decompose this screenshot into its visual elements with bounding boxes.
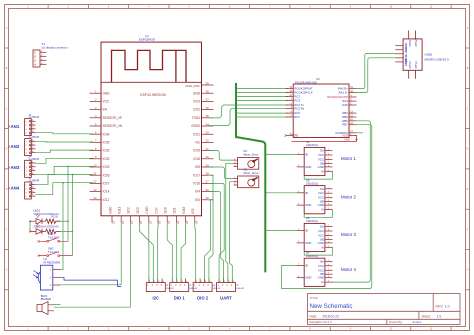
module U1 body ESP32 outline bbox=[101, 42, 202, 216]
U3 pin 18 RC1/ICSPCLK bbox=[286, 92, 294, 94]
IC U5 body bbox=[304, 186, 325, 214]
wire LED1/SW1 bus to IO25 junction bbox=[67, 166, 69, 241]
connector J8 pins bbox=[196, 279, 209, 283]
U3 pin 9 RC7 bbox=[286, 116, 294, 118]
U7 pin 2 VCC bbox=[325, 269, 333, 271]
svg-text:GND: GND bbox=[305, 241, 311, 245]
motor M1 body bbox=[238, 158, 259, 170]
U1 pin 9 IO33 bbox=[90, 158, 102, 160]
U6 pin 6 GND bbox=[325, 242, 333, 244]
svg-text:D+: D+ bbox=[404, 53, 408, 57]
U6 pin 1 OA bbox=[325, 226, 333, 228]
svg-text:IO0: IO0 bbox=[195, 198, 200, 202]
U1 pin 26 IO4 bbox=[202, 191, 214, 193]
svg-text:CLK: CLK bbox=[154, 207, 158, 214]
U6 pin 5 IA bbox=[325, 246, 333, 248]
svg-text:32: 32 bbox=[206, 139, 210, 143]
title block frame bbox=[308, 294, 461, 325]
IC U7 body bbox=[304, 258, 325, 286]
U1 pin 3 EN bbox=[90, 109, 102, 111]
wire bus to PIC RC3 bbox=[236, 98, 288, 100]
connector P1 pins bbox=[40, 52, 47, 64]
svg-text:GND: GND bbox=[103, 91, 111, 95]
svg-text:VDD: VDD bbox=[344, 138, 350, 142]
svg-text:I2C: I2C bbox=[153, 296, 160, 301]
svg-text:1.0: 1.0 bbox=[445, 305, 450, 309]
svg-text:Drawn By:: Drawn By: bbox=[389, 320, 403, 324]
svg-text:1/1: 1/1 bbox=[437, 314, 442, 318]
U3 pin 18 RA1 D- bbox=[349, 92, 357, 94]
U3 pin 20 VSS bbox=[286, 135, 294, 137]
svg-text:NC: NC bbox=[195, 141, 200, 145]
svg-text:VCC: VCC bbox=[103, 100, 110, 104]
svg-text:Sheet:: Sheet: bbox=[422, 314, 431, 318]
svg-text:IO32: IO32 bbox=[103, 149, 110, 153]
U5 pin 2 IB bbox=[297, 192, 305, 194]
switch SW2 bbox=[37, 252, 72, 256]
svg-text:15: 15 bbox=[112, 220, 116, 224]
U7 pin 2 IB bbox=[297, 264, 305, 266]
U4 pin 1 OA bbox=[325, 150, 333, 152]
U7 pin 3 OB bbox=[325, 273, 333, 275]
svg-text:IO16: IO16 bbox=[193, 182, 200, 186]
svg-text:GND_PAD: GND_PAD bbox=[185, 84, 200, 88]
svg-text:VCC: VCC bbox=[318, 191, 324, 195]
connector P1 pin numbers bbox=[41, 50, 43, 65]
svg-text:GND: GND bbox=[404, 60, 408, 66]
U3 pin 5 RC5 Rx bbox=[286, 107, 294, 109]
connector P1 body bbox=[33, 50, 40, 67]
svg-text:IO18: IO18 bbox=[193, 157, 200, 161]
connector J4 body bbox=[25, 160, 32, 177]
connector J7 pins bbox=[172, 279, 185, 283]
U1 pin 2 VCC bbox=[90, 100, 102, 102]
U5 pin 2 VCC bbox=[325, 197, 333, 199]
svg-text:37: 37 bbox=[206, 98, 210, 102]
svg-text:30: 30 bbox=[206, 155, 210, 159]
wire RB6 to motor4 IA bbox=[333, 121, 371, 282]
U3 pin 14 RC2 bbox=[286, 96, 294, 98]
svg-text:RC5 Rx: RC5 Rx bbox=[294, 106, 304, 110]
wire VDD red power bbox=[292, 136, 357, 142]
svg-text:36: 36 bbox=[206, 106, 210, 110]
svg-text:M1: M1 bbox=[244, 149, 248, 153]
svg-text:D: D bbox=[6, 148, 8, 151]
U1 pin 4 SENSOR_VP bbox=[90, 117, 102, 119]
svg-text:IO22: IO22 bbox=[193, 108, 200, 112]
connector USB1 left pins bbox=[395, 46, 403, 62]
U4 pin 3 OB bbox=[325, 162, 333, 164]
svg-text:OA: OA bbox=[320, 149, 324, 153]
U1 pin 39 GND_PAD stub bbox=[202, 84, 214, 86]
U1 pin 14 IO12 bbox=[90, 199, 102, 201]
svg-text:IA: IA bbox=[321, 169, 324, 173]
svg-text:IO26: IO26 bbox=[103, 173, 110, 177]
svg-text:USB-4P: USB-4P bbox=[189, 288, 197, 290]
U1 pin 24 IO2 bbox=[194, 216, 196, 223]
svg-text:ESP32MOD: ESP32MOD bbox=[139, 37, 156, 41]
U1 pin 13 IO14 bbox=[90, 191, 102, 193]
svg-text:CMD: CMD bbox=[145, 206, 149, 214]
svg-text:Motor 1: Motor 1 bbox=[341, 156, 356, 161]
connector J2 pins bbox=[29, 120, 35, 133]
wire DIO2 pin3 to IO0 bbox=[205, 200, 211, 283]
wire IR pin1 to IO27 junction bbox=[61, 183, 64, 270]
svg-text:Motor_Servo: Motor_Servo bbox=[244, 153, 259, 157]
U1 pin 37 IO23 bbox=[202, 100, 214, 102]
wire DIO1 pin1 to SD0 bbox=[167, 223, 172, 283]
svg-text:L9110S(1): L9110S(1) bbox=[306, 219, 318, 223]
svg-text:DIO 1: DIO 1 bbox=[174, 296, 186, 301]
U6 pin 3 GND bbox=[297, 242, 305, 244]
buzzer BUZ1 bbox=[37, 302, 54, 315]
U5 pin 3 GND bbox=[297, 204, 305, 206]
U4 pin 3 GND bbox=[297, 166, 305, 168]
U1 pin 21 SD0 bbox=[166, 216, 168, 223]
U3 pin 13 RB4 bbox=[349, 112, 357, 114]
U1 pin 30 IO18 bbox=[202, 158, 214, 160]
svg-text:SW1: SW1 bbox=[48, 232, 54, 236]
wire IR pin3 to IO13 bbox=[61, 223, 122, 285]
svg-text:M2: M2 bbox=[244, 168, 248, 172]
connector J3 pins bbox=[29, 140, 35, 153]
svg-text:IO34: IO34 bbox=[103, 132, 110, 136]
svg-text:USB-4P: USB-4P bbox=[166, 288, 174, 290]
svg-text:VCC: VCC bbox=[318, 153, 324, 157]
U7 pin 6 GND bbox=[325, 277, 333, 279]
wire RA0 to USB D+ bbox=[355, 54, 396, 89]
connector J9 UART body bbox=[217, 283, 236, 292]
svg-text:38: 38 bbox=[206, 90, 210, 94]
svg-text:VCC: VCC bbox=[318, 264, 324, 268]
U1 pin 34 RXD0 bbox=[202, 125, 214, 127]
wire U6 IA loop bbox=[304, 247, 332, 255]
svg-text:G: G bbox=[6, 269, 8, 272]
wire servo M1 to UART pin3 bbox=[226, 163, 234, 282]
svg-text:L9110S(1): L9110S(1) bbox=[306, 181, 318, 185]
U3 pin 7 RC3 bbox=[286, 100, 294, 102]
connector J4 pins bbox=[29, 162, 35, 175]
wire bus to PIC RC2 bbox=[236, 94, 288, 96]
svg-text:11: 11 bbox=[93, 172, 96, 176]
wire DIO2 pin4 to IO17 bbox=[208, 175, 213, 282]
svg-text:GND: GND bbox=[305, 276, 311, 280]
wire U5 IA loop bbox=[304, 210, 332, 218]
U3 pin 17 VUSB3V3 bbox=[349, 132, 357, 134]
svg-text:IB: IB bbox=[305, 191, 308, 195]
U3 pin 11 RB6 bbox=[349, 120, 357, 122]
U5 pin 6 GND bbox=[325, 204, 333, 206]
wire TXD0 to RC4 bbox=[208, 105, 288, 118]
motor M2 body bbox=[238, 176, 259, 188]
U3 pin 12 RB5 bbox=[349, 116, 357, 118]
IR receiver U2 pins bbox=[53, 270, 61, 286]
svg-text:Date:: Date: bbox=[310, 314, 318, 318]
svg-text:GND: GND bbox=[108, 206, 112, 214]
border column ticks top bbox=[48, 5, 451, 9]
svg-text:SD1: SD1 bbox=[173, 207, 177, 213]
svg-text:USB1: USB1 bbox=[425, 53, 433, 57]
U3 pin 4 RA3/MCLR/VPP bbox=[349, 96, 357, 98]
U4 pin 4 VCC bbox=[325, 154, 333, 156]
U5 pin 5 IA bbox=[325, 209, 333, 211]
svg-text:C: C bbox=[467, 107, 469, 110]
IC U6 body bbox=[304, 223, 325, 251]
svg-text:IB: IB bbox=[305, 229, 308, 233]
U1 pin 11 IO26 bbox=[90, 174, 102, 176]
U1 pin 7 IO35 bbox=[90, 141, 102, 143]
U1 pin 12 IO27 bbox=[90, 182, 102, 184]
U1 pin 10 IO25 bbox=[90, 166, 102, 168]
svg-text:Motor 2: Motor 2 bbox=[341, 194, 356, 199]
wire IR pin2 blue bbox=[61, 277, 122, 286]
svg-text:MTN2: MTN2 bbox=[414, 39, 418, 47]
U1 pin 29 IO5 bbox=[202, 166, 214, 168]
wire buzzer stub bbox=[54, 304, 61, 306]
svg-text:VBUS: VBUS bbox=[404, 43, 408, 51]
svg-text:IB: IB bbox=[305, 263, 308, 267]
svg-text:GND: GND bbox=[305, 165, 311, 169]
U7 pin 1 OA bbox=[325, 260, 333, 262]
wire I2C pin1 to CMD bbox=[148, 223, 150, 283]
U1 pin 36 IO22 bbox=[202, 109, 214, 111]
svg-text:MTN3: MTN3 bbox=[408, 61, 412, 69]
wire LED left chain bbox=[29, 221, 31, 231]
wire IO5 to servo M2 pin1 bbox=[208, 167, 234, 179]
svg-text:AN1: AN1 bbox=[11, 124, 20, 129]
svg-text:IO21: IO21 bbox=[193, 132, 200, 136]
connector USB1 body bbox=[403, 39, 422, 70]
U1 pin 1 GND bbox=[90, 92, 102, 94]
wire bus to PIC RC0 bbox=[236, 86, 288, 88]
U4 pin 5 IA bbox=[325, 170, 333, 172]
svg-text:D: D bbox=[467, 148, 469, 151]
svg-text:SD2: SD2 bbox=[127, 207, 131, 213]
wire UART pin1 to IO16 bbox=[208, 183, 224, 282]
U3 pin 3 RA4 bbox=[349, 100, 357, 102]
border column ticks bottom bbox=[48, 327, 451, 331]
svg-text:BUZZER: BUZZER bbox=[41, 297, 52, 301]
U3 pin 6 RC4 Tx bbox=[286, 104, 294, 106]
wire DIO1 pin2 to SD1 bbox=[175, 223, 177, 283]
wire bus to PIC RC5 bbox=[236, 115, 288, 117]
wire bus to PIC RC4 bbox=[236, 111, 288, 113]
U7 pin 4 VCC bbox=[325, 265, 333, 267]
wire LED1 to bus bbox=[61, 220, 69, 222]
svg-text:OA: OA bbox=[320, 187, 324, 191]
svg-text:VSS: VSS bbox=[292, 134, 298, 138]
U1 pin 16 IO13 bbox=[120, 216, 122, 223]
wire thick vertical bus bbox=[236, 83, 265, 272]
connector J7 pad numbers bbox=[171, 284, 186, 287]
border row letters bbox=[6, 27, 469, 272]
svg-text:MTN4: MTN4 bbox=[414, 61, 418, 69]
U1 pin 8 IO32 bbox=[90, 150, 102, 152]
border row ticks left bbox=[5, 48, 9, 290]
U1 pin 20 CLK bbox=[157, 216, 159, 223]
motor M1 pins bbox=[234, 160, 238, 166]
U3 pin 19 RC0/ICSPDAT bbox=[286, 88, 294, 90]
U1 pin 6 IO34 bbox=[90, 133, 102, 135]
border row ticks right bbox=[466, 48, 470, 290]
svg-text:IO23: IO23 bbox=[193, 100, 200, 104]
svg-text:IO17: IO17 bbox=[193, 173, 200, 177]
U1 pin 38 GND bbox=[202, 92, 214, 94]
svg-text:RC7: RC7 bbox=[294, 115, 300, 119]
svg-text:MICRO-USB 5S.9: MICRO-USB 5S.9 bbox=[425, 58, 450, 62]
svg-text:IO4: IO4 bbox=[195, 190, 200, 194]
svg-text:SENSOR_VP: SENSOR_VP bbox=[103, 116, 123, 120]
svg-text:TITLE:: TITLE: bbox=[310, 296, 319, 300]
svg-text:USB-4P: USB-4P bbox=[236, 288, 244, 290]
LED LED2 bbox=[30, 224, 46, 235]
svg-text:AN2: AN2 bbox=[11, 144, 20, 149]
svg-text:REV:: REV: bbox=[436, 305, 444, 309]
svg-text:amans: amans bbox=[413, 320, 423, 324]
svg-text:AN4: AN4 bbox=[11, 185, 20, 190]
svg-text:DIO 2: DIO 2 bbox=[197, 296, 209, 301]
U3 pin 10 RB7 bbox=[349, 124, 357, 126]
wire AN4 to IO26 bbox=[36, 175, 94, 185]
connector J8 pad numbers bbox=[194, 284, 209, 287]
U4 pin 6 GND bbox=[325, 166, 333, 168]
wire AN2 to IO32 bbox=[36, 150, 94, 153]
svg-text:IA: IA bbox=[321, 208, 324, 212]
U3 pin 1 VDD bbox=[349, 135, 357, 137]
U6 pin 2 VCC bbox=[325, 235, 333, 237]
U6 pin 3 OB bbox=[325, 238, 333, 240]
wire bus to U6 IB bbox=[265, 229, 296, 231]
svg-text:G: G bbox=[467, 269, 469, 272]
connector J5 body bbox=[25, 182, 32, 199]
connector J5 pins bbox=[29, 184, 35, 197]
svg-text:L9110S(1): L9110S(1) bbox=[306, 143, 318, 147]
svg-text:i2c display connector: i2c display connector bbox=[42, 46, 68, 50]
U1 pin 25 IO0 bbox=[202, 199, 214, 201]
svg-text:IB: IB bbox=[305, 153, 308, 157]
connector J2 body bbox=[25, 119, 32, 136]
U7 pin 3 GND bbox=[297, 277, 305, 279]
U4 pin 2 IB bbox=[297, 154, 305, 156]
svg-text:GND: GND bbox=[318, 165, 324, 169]
svg-text:USB-4P: USB-4P bbox=[213, 288, 221, 290]
switch SW1 bbox=[37, 238, 68, 243]
connector USB1 pin names bbox=[404, 43, 408, 66]
svg-text:Motor 4: Motor 4 bbox=[341, 267, 356, 272]
U1 pin 35 TXD0 bbox=[202, 117, 214, 119]
svg-text:IO15: IO15 bbox=[182, 206, 186, 213]
U1 pin 22 SD1 bbox=[175, 216, 177, 223]
wire UART pin2 to IO4 bbox=[208, 192, 224, 283]
U1 pin 19 CMD bbox=[148, 216, 150, 223]
connector P1 pin pads bbox=[34, 50, 36, 66]
wire bus to U5 IB bbox=[265, 191, 296, 193]
wire I2C pin2 to SD3 bbox=[140, 223, 154, 283]
U1 pin 17 SD2 bbox=[129, 216, 131, 223]
U7 pin 5 IA bbox=[325, 281, 333, 283]
U1 pin 27 IO16 bbox=[202, 182, 214, 184]
connector J8 DIO 2 body bbox=[193, 283, 212, 292]
svg-text:R5 1K: R5 1K bbox=[52, 216, 59, 219]
wire VUSB3V3 stub bbox=[355, 132, 364, 134]
wire bus to U4 IB bbox=[265, 153, 296, 155]
svg-text:IO13: IO13 bbox=[118, 206, 122, 213]
U1 pin 32 NC bbox=[202, 141, 214, 143]
connector USB1 shield pins bbox=[409, 31, 416, 79]
U3 pin 2 RA5 bbox=[349, 104, 357, 106]
svg-text:ID: ID bbox=[404, 58, 408, 61]
svg-text:IO2: IO2 bbox=[191, 208, 195, 213]
svg-text:GND: GND bbox=[318, 203, 324, 207]
connector J7 DIO 1 body bbox=[170, 283, 189, 292]
svg-text:RC3: RC3 bbox=[294, 99, 300, 103]
svg-text:RB7: RB7 bbox=[342, 123, 348, 127]
U1 pin 15 GND bbox=[111, 216, 113, 223]
svg-text:EasyEDA V5.1.3: EasyEDA V5.1.3 bbox=[310, 320, 333, 324]
module U1 antenna divider bbox=[101, 81, 202, 83]
wire servo M2 to UART pin4 bbox=[230, 182, 234, 283]
wire RB7 to motor4 IB bbox=[282, 125, 372, 289]
U1 pin 28 IO17 bbox=[202, 174, 214, 176]
svg-text:Motor_Servo: Motor_Servo bbox=[244, 171, 259, 175]
svg-text:D-: D- bbox=[404, 49, 408, 52]
U1 pin 5 SENSOR_VN bbox=[90, 125, 102, 127]
wire LED2 to bus bbox=[61, 231, 73, 233]
svg-text:Motor 3: Motor 3 bbox=[341, 232, 356, 237]
wire AN3 to IO25 bbox=[36, 166, 94, 174]
module U1 antenna meander bbox=[112, 50, 187, 82]
svg-text:IO33: IO33 bbox=[103, 157, 110, 161]
wire buzzer to SD2 bbox=[54, 223, 130, 308]
svg-text:SD0: SD0 bbox=[164, 207, 168, 213]
svg-text:10: 10 bbox=[93, 163, 97, 167]
svg-text:IO25: IO25 bbox=[103, 165, 110, 169]
U6 pin 4 VCC bbox=[325, 230, 333, 232]
svg-text:New Schematic: New Schematic bbox=[310, 303, 353, 310]
U1 pin 31 IO19 bbox=[202, 150, 214, 152]
svg-text:13: 13 bbox=[93, 188, 97, 192]
svg-text:AN3: AN3 bbox=[11, 165, 20, 170]
svg-text:IO35: IO35 bbox=[103, 141, 110, 145]
U1 pin 18 SD3 bbox=[139, 216, 141, 223]
svg-text:IA: IA bbox=[321, 280, 324, 284]
wire DIO2 pin1 to IO2 bbox=[194, 223, 197, 283]
svg-text:39: 39 bbox=[206, 81, 210, 85]
wire AN2 to IO35 bbox=[36, 140, 94, 143]
wire LED2/SW2 bus to IO26 junction bbox=[71, 175, 73, 256]
svg-text:14: 14 bbox=[93, 196, 97, 200]
U5 pin 4 VCC bbox=[325, 192, 333, 194]
IC U3 body bbox=[293, 84, 349, 138]
svg-text:SENSOR_VN: SENSOR_VN bbox=[103, 124, 123, 128]
connector J9 pins bbox=[219, 279, 232, 283]
svg-text:GND: GND bbox=[305, 203, 311, 207]
U5 pin 1 OA bbox=[325, 188, 333, 190]
wire RA1 to USB D- bbox=[355, 58, 396, 93]
svg-text:IO14: IO14 bbox=[103, 190, 110, 194]
LED LED1 bbox=[30, 213, 46, 224]
U1 pin 33 IO21 bbox=[202, 133, 214, 135]
U1 pin 23 IO15 bbox=[185, 216, 187, 223]
svg-text:IO5: IO5 bbox=[195, 165, 200, 169]
IC U4 body bbox=[304, 147, 325, 175]
U4 pin 2 VCC bbox=[325, 159, 333, 161]
U5 pin 3 OB bbox=[325, 201, 333, 203]
connector J6 I2C body bbox=[146, 283, 165, 292]
svg-text:UART: UART bbox=[220, 296, 232, 301]
wire I2C pin3 to CLK bbox=[157, 223, 159, 283]
wire U4 IA loop bbox=[304, 171, 332, 179]
